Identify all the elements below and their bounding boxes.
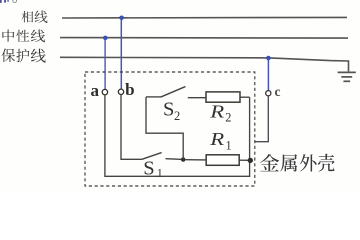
svg-text:R: R [209, 103, 225, 122]
terminal b [118, 89, 123, 94]
terminal a [102, 89, 107, 94]
page text fragment (cut-off characters at top-left) [0, 0, 17, 3]
wire: phase line 相线 [62, 16, 347, 19]
wire: b terminal down to S1 [121, 95, 142, 160]
svg-text:S: S [163, 99, 174, 121]
wire: neutral line 中性线 [60, 37, 348, 40]
node on PE line (tap for c) [266, 56, 271, 61]
switch S2 [146, 87, 206, 98]
svg-text:S: S [143, 158, 154, 180]
label 金属外壳 [260, 154, 335, 172]
wire: protective line 保护线 [60, 57, 349, 71]
resistor R1 [185, 155, 249, 166]
ground [338, 72, 356, 81]
wire: a drop from neutral line [104, 38, 106, 89]
node: junction S1 / R1 / S2-branch [181, 157, 186, 162]
wire: b drop from phase line [120, 18, 122, 89]
svg-text:1: 1 [226, 138, 232, 152]
label 相线 (phase line) [22, 10, 48, 23]
svg-text:b: b [125, 80, 134, 99]
resistor R2 [206, 92, 250, 102]
switch S1 [142, 153, 184, 160]
svg-text:R: R [209, 131, 225, 150]
svg-text:c: c [275, 84, 281, 99]
wire: junction up-around to S2 branch [146, 97, 183, 160]
wire: a terminal to bottom rail to right node [105, 95, 250, 177]
wire: c drop from PE line [267, 58, 269, 91]
svg-text:2: 2 [174, 109, 180, 123]
svg-text:1: 1 [157, 165, 163, 179]
node on neutral line (tap for a) [103, 36, 108, 41]
terminal c [266, 91, 271, 96]
svg-text:a: a [91, 81, 100, 100]
label 中性线 (neutral line) [2, 30, 45, 43]
wire: c terminal down to shell [255, 96, 268, 142]
node on phase line (tap for b) [119, 15, 124, 20]
node: right junction (R1 right / rail) [248, 158, 253, 163]
wire: right node vertical (R2 to R1 junction) [249, 97, 251, 160]
label 保护线 (protective earth line) [2, 48, 46, 62]
metal shell 金属外壳 (dashed enclosure) [85, 72, 255, 186]
svg-text:2: 2 [225, 111, 231, 125]
